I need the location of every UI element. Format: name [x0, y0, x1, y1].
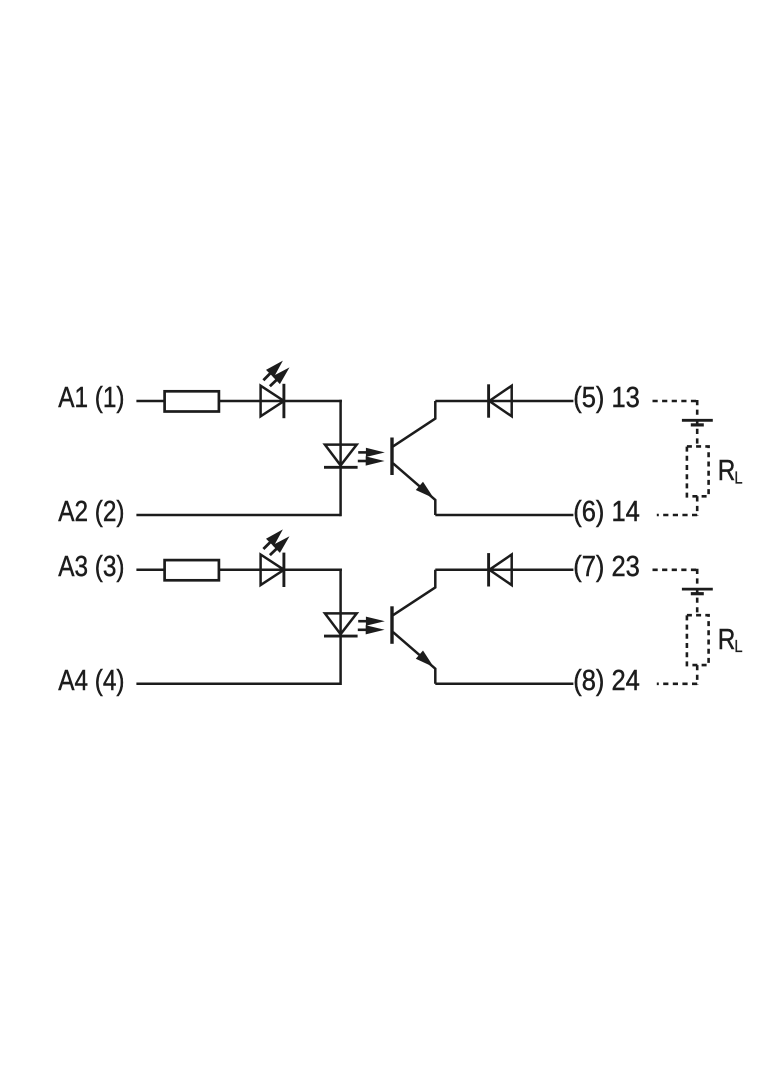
wire emitter to terminal (8) 24 — [435, 683, 573, 686]
optocoupler U2 light arrow 2 — [358, 628, 368, 631]
diode D2 (cathode left) — [489, 386, 511, 417]
phototransistor Q1 emitter — [393, 463, 435, 515]
wire A3 (3) lead — [136, 569, 164, 572]
LED D1 — [261, 386, 284, 417]
dashed wire RL1 return (vertical) — [696, 496, 699, 516]
phototransistor Q1 emitter arrowhead — [416, 482, 434, 499]
phototransistor Q2 emitter arrowhead — [416, 651, 434, 668]
wire A1 (1) lead — [136, 400, 164, 403]
svg-text:A1 (1): A1 (1) — [58, 381, 124, 413]
wire R2 to LED D3 — [219, 569, 284, 572]
phototransistor Q2 collector — [393, 570, 435, 615]
dashed wire supply drop (vertical) — [696, 569, 699, 615]
optocoupler U1 light arrow 1 — [358, 451, 368, 454]
optocoupler U1 light arrow 2 — [358, 460, 368, 463]
LED D3 emission arrow 1 — [263, 541, 271, 549]
svg-text:(7) 23: (7) 23 — [573, 549, 640, 582]
load resistor RL1 (dashed) — [687, 446, 709, 496]
svg-text:A3 (3): A3 (3) — [58, 550, 124, 582]
dashed wire return to (8) 24 (horizontal) — [657, 682, 697, 685]
svg-text:L: L — [734, 468, 742, 487]
wire LED D1 to node — [284, 400, 342, 403]
wire R1 to LED D1 — [219, 400, 284, 403]
dashed wire RL2 return (vertical) — [696, 665, 699, 685]
phototransistor Q2 emitter — [393, 632, 435, 684]
battery cell negative plate — [691, 423, 704, 426]
wire emitter to terminal (6) 14 — [435, 514, 573, 517]
wire A4 (4) lead — [136, 683, 340, 686]
dashed wire (7) 23 to load supply (horizontal) — [653, 568, 698, 571]
svg-text:(8) 24: (8) 24 — [573, 663, 640, 696]
svg-text:L: L — [734, 637, 742, 656]
LED D3 emission arrow 2 — [270, 548, 278, 555]
svg-text:A2 (2): A2 (2) — [58, 495, 124, 527]
wire collector to diode D2 — [435, 400, 573, 403]
dashed wire return to (6) 14 (horizontal) — [657, 514, 697, 517]
svg-text:R: R — [718, 454, 736, 486]
phototransistor Q1 collector — [393, 401, 435, 446]
dashed wire supply drop (vertical) — [696, 400, 699, 446]
battery cell positive plate — [682, 419, 713, 422]
svg-text:R: R — [718, 623, 736, 655]
LED D3 — [261, 555, 284, 586]
load resistor RL2 (dashed) — [687, 615, 709, 665]
wire vertical A3 (3)/A4 (4) branch — [339, 569, 342, 686]
optocoupler U1 internal LED — [325, 445, 357, 466]
svg-text:(5) 13: (5) 13 — [573, 380, 640, 413]
wire vertical A1 (1)/A2 (2) branch — [339, 400, 342, 516]
optocoupler U2 internal LED — [325, 613, 357, 634]
phototransistor Q2 base bar — [390, 606, 393, 644]
dashed wire (5) 13 to load supply (horizontal) — [653, 400, 698, 403]
LED D1 emission arrow 2 — [270, 379, 278, 386]
battery cell positive plate — [682, 588, 713, 591]
svg-text:(6) 14: (6) 14 — [573, 494, 640, 527]
svg-text:A4 (4): A4 (4) — [58, 664, 124, 696]
wire LED D3 to node — [284, 569, 342, 572]
optocoupler U2 light arrow 1 — [358, 620, 368, 623]
LED D1 emission arrow 1 — [263, 372, 271, 380]
diode D4 (cathode left) — [489, 555, 511, 586]
wire collector to diode D4 — [435, 569, 573, 572]
resistor R1 — [165, 391, 219, 411]
phototransistor Q1 base bar — [390, 438, 393, 476]
battery cell negative plate — [691, 592, 704, 595]
wire A2 (2) lead — [136, 514, 340, 517]
resistor R2 — [165, 560, 219, 580]
